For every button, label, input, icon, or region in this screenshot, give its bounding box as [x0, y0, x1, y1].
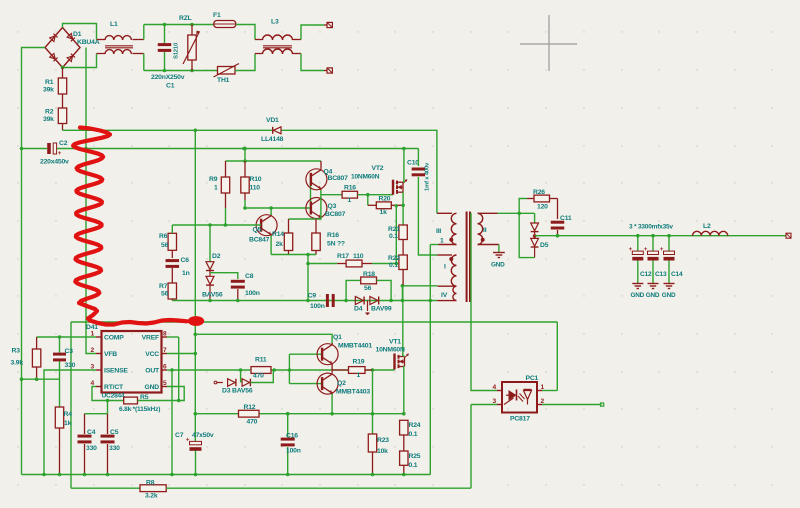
svg-text:VFB: VFB: [104, 351, 117, 358]
svg-text:56: 56: [161, 242, 169, 249]
svg-text:R5: R5: [140, 394, 149, 401]
svg-text:0.1: 0.1: [389, 262, 398, 269]
svg-text:110: 110: [353, 253, 364, 260]
svg-text:10k: 10k: [377, 448, 388, 455]
svg-text:C8: C8: [245, 273, 254, 280]
svg-text:120: 120: [537, 204, 548, 211]
svg-text:100n: 100n: [286, 448, 301, 455]
svg-text:100n: 100n: [245, 290, 260, 297]
svg-text:C9: C9: [308, 293, 317, 300]
svg-text:Q1: Q1: [333, 334, 342, 341]
svg-text:MMBT4401: MMBT4401: [338, 343, 372, 350]
svg-text:330: 330: [86, 445, 97, 452]
svg-text:GND: GND: [646, 292, 660, 299]
svg-text:2: 2: [91, 347, 95, 354]
svg-text:BC807: BC807: [328, 175, 349, 182]
svg-text:VCC: VCC: [145, 351, 159, 358]
svg-text:KBU4A: KBU4A: [77, 39, 100, 46]
svg-text:D2: D2: [212, 253, 221, 260]
svg-text:100n: 100n: [310, 303, 325, 310]
svg-text:330: 330: [109, 445, 120, 452]
svg-text:R21: R21: [388, 226, 400, 233]
svg-text:R1: R1: [45, 79, 54, 86]
svg-text:C12: C12: [640, 271, 652, 278]
svg-text:330: 330: [65, 362, 76, 369]
svg-text:0.1: 0.1: [409, 431, 418, 438]
svg-text:L1: L1: [110, 21, 118, 28]
svg-text:L3: L3: [271, 19, 279, 26]
svg-text:R24: R24: [409, 422, 421, 429]
svg-text:R11: R11: [255, 357, 267, 364]
svg-text:VT1: VT1: [389, 339, 401, 346]
svg-text:R3: R3: [12, 348, 21, 355]
svg-text:1: 1: [348, 197, 352, 204]
svg-text:0.1: 0.1: [409, 462, 418, 469]
svg-text:TH1: TH1: [217, 77, 230, 84]
svg-text:6: 6: [163, 364, 167, 371]
svg-text:3 * 3300mfx35v: 3 * 3300mfx35v: [629, 224, 673, 231]
svg-text:VD1: VD1: [266, 117, 279, 124]
svg-text:R9: R9: [209, 176, 218, 183]
svg-text:39k: 39k: [43, 87, 54, 94]
svg-text:56: 56: [364, 285, 372, 292]
svg-text:Q5: Q5: [253, 227, 262, 234]
svg-text:COMP: COMP: [104, 335, 124, 342]
svg-text:UC2844: UC2844: [102, 393, 126, 400]
svg-text:1k: 1k: [64, 420, 72, 427]
svg-text:RZL: RZL: [179, 15, 192, 22]
svg-text:GND: GND: [631, 292, 645, 299]
svg-text:R19: R19: [353, 359, 365, 366]
svg-text:470: 470: [247, 419, 258, 426]
svg-text:D1: D1: [73, 31, 82, 38]
svg-text:BAV56: BAV56: [232, 388, 253, 395]
svg-text:C11: C11: [560, 215, 572, 222]
svg-text:R20: R20: [379, 196, 391, 203]
svg-text:BC807: BC807: [325, 211, 346, 218]
svg-text:6.8k *(115kHz): 6.8k *(115kHz): [119, 406, 160, 413]
svg-text:C7: C7: [175, 432, 184, 439]
svg-text:BAV99: BAV99: [371, 306, 392, 313]
svg-text:GND: GND: [662, 292, 676, 299]
svg-text:8: 8: [163, 331, 167, 338]
svg-text:1: 1: [214, 185, 218, 192]
svg-text:RT/CT: RT/CT: [104, 384, 124, 391]
svg-text:GND: GND: [144, 384, 159, 391]
svg-text:R17: R17: [337, 253, 349, 260]
svg-text:10NM60N: 10NM60N: [376, 347, 405, 354]
svg-text:S1210: S1210: [174, 42, 180, 59]
svg-text:5: 5: [163, 380, 167, 387]
svg-text:D5: D5: [540, 242, 549, 249]
svg-text:OUT: OUT: [145, 368, 160, 375]
svg-text:3.2k: 3.2k: [145, 493, 158, 500]
svg-text:R26: R26: [533, 189, 545, 196]
svg-text:BAV56: BAV56: [202, 292, 223, 299]
svg-text:GND: GND: [491, 262, 505, 269]
svg-text:1k: 1k: [380, 209, 388, 216]
svg-text:470: 470: [253, 373, 264, 380]
svg-text:1n: 1n: [182, 270, 190, 277]
svg-text:R16: R16: [344, 185, 356, 192]
svg-text:C5: C5: [110, 429, 119, 436]
svg-text:5N ??: 5N ??: [327, 241, 345, 248]
svg-text:C14: C14: [671, 271, 683, 278]
svg-text:PC1: PC1: [526, 375, 539, 382]
svg-text:MMBT4403: MMBT4403: [336, 389, 370, 396]
svg-text:C16: C16: [286, 433, 298, 440]
svg-text:R2: R2: [45, 109, 54, 116]
svg-text:R16: R16: [327, 232, 339, 239]
svg-text:10NM60N: 10NM60N: [351, 173, 380, 180]
svg-text:R4: R4: [64, 411, 73, 418]
svg-text:BC847: BC847: [249, 237, 270, 244]
svg-text:D3: D3: [222, 388, 231, 395]
svg-text:I: I: [444, 264, 446, 271]
svg-text:R6: R6: [159, 233, 168, 240]
svg-text:IV: IV: [441, 292, 448, 299]
svg-text:C6: C6: [181, 257, 190, 264]
svg-text:47x50v: 47x50v: [192, 432, 214, 439]
svg-text:R12: R12: [244, 404, 256, 411]
svg-text:2k: 2k: [276, 241, 284, 248]
svg-text:R8: R8: [146, 480, 155, 487]
svg-text:C10: C10: [407, 160, 419, 167]
svg-text:110: 110: [250, 185, 261, 192]
svg-text:II: II: [483, 227, 487, 234]
svg-text:1mf x 400v: 1mf x 400v: [425, 162, 431, 191]
svg-text:R7: R7: [159, 283, 168, 290]
svg-text:C13: C13: [655, 271, 667, 278]
svg-text:LL4148: LL4148: [261, 136, 284, 143]
svg-text:F1: F1: [213, 12, 221, 19]
svg-text:1: 1: [440, 238, 444, 245]
svg-text:220nX250v: 220nX250v: [151, 74, 185, 81]
svg-text:R25: R25: [409, 453, 421, 460]
svg-text:220x450v: 220x450v: [40, 159, 69, 166]
svg-text:C4: C4: [87, 429, 96, 436]
svg-text:L2: L2: [703, 223, 711, 230]
svg-text:39k: 39k: [43, 116, 54, 123]
svg-text:3.9k: 3.9k: [11, 360, 24, 367]
svg-text:R10: R10: [250, 176, 262, 183]
svg-text:III: III: [436, 228, 441, 235]
svg-text:R18: R18: [363, 271, 375, 278]
svg-text:C3: C3: [65, 348, 74, 355]
svg-text:0.1: 0.1: [389, 233, 398, 240]
svg-text:56: 56: [161, 291, 169, 298]
svg-text:R22: R22: [388, 255, 400, 262]
svg-text:Q3: Q3: [328, 203, 337, 210]
svg-text:R14: R14: [272, 231, 284, 238]
svg-text:VREF: VREF: [142, 335, 159, 342]
svg-text:1: 1: [357, 372, 361, 379]
svg-text:C1: C1: [166, 83, 175, 90]
svg-text:C2: C2: [59, 140, 68, 147]
svg-text:D4: D4: [354, 306, 363, 313]
svg-text:VT2: VT2: [372, 165, 384, 172]
svg-text:PC817: PC817: [510, 416, 530, 423]
svg-text:R23: R23: [377, 437, 389, 444]
svg-text:ISENSE: ISENSE: [104, 368, 128, 375]
svg-text:7: 7: [163, 347, 167, 354]
svg-text:Q2: Q2: [337, 380, 346, 387]
